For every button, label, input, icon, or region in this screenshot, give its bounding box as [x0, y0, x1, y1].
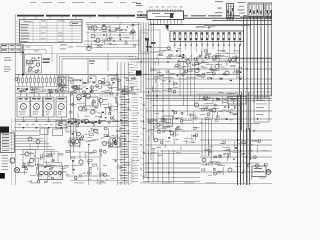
dark box bottom-left	[0, 173, 5, 179]
IC U201	[147, 9, 184, 19]
wire: band bottom y93	[15, 92, 136, 94]
wire grid bottom center	[143, 150, 200, 183]
parts list table	[17, 20, 83, 43]
label 3S021	[43, 59, 51, 63]
IF amplifier section	[84, 23, 140, 51]
wire: left bus pair	[22, 44, 24, 76]
page border (left frame)	[12, 14, 16, 185]
net label ladder	[120, 89, 145, 184]
audio section cluster	[12, 128, 70, 183]
wire: bottom-right horizontal buses	[146, 96, 272, 172]
switch block AM/FM	[1, 44, 21, 53]
title text top-left margin	[30, 1, 137, 4]
box right text panel	[254, 97, 269, 122]
tuner section box	[25, 55, 42, 74]
wire: bus y62 right	[136, 61, 272, 63]
bottom margin text	[30, 182, 216, 185]
wire: connector return line	[240, 16, 272, 18]
wire: right vertical bus	[240, 13, 272, 185]
left edge text column	[2, 155, 9, 170]
wire: second bus to right edge	[212, 19, 272, 21]
wire: tuner links	[21, 46, 52, 63]
component cluster below U201 drops	[146, 47, 181, 93]
wire: arrow drop x88	[88, 59, 95, 75]
wire: right buses y79-95	[136, 78, 272, 95]
wire: main top bus	[17, 15, 247, 17]
mid band component row	[15, 75, 136, 94]
wire: table to radio links	[18, 43, 21, 45]
wire stubs below top bus	[24, 17, 118, 19]
component cluster power	[194, 92, 237, 121]
label cluster above section	[60, 45, 103, 50]
speaker circle	[10, 158, 15, 163]
box bottom-right	[252, 166, 271, 177]
wires from left connector	[14, 136, 55, 150]
wire: vertical bus below U201	[128, 23, 154, 181]
wire: bus y69 right	[150, 68, 272, 70]
wire: bus y24.5	[150, 25, 272, 26]
wire: tuner top link	[21, 53, 56, 55]
arrow down at x167	[165, 25, 169, 29]
wire: verticals x202-212	[202, 119, 212, 156]
connector CN603	[265, 3, 272, 17]
driver transistors	[15, 127, 69, 129]
wire: verticals x157-169	[156, 69, 169, 123]
label above IC601	[195, 26, 215, 28]
wire into U201 left	[137, 12, 148, 18]
connector left edge	[0, 133, 14, 153]
chroma section cluster	[66, 92, 120, 148]
text under AM/FM	[4, 58, 12, 72]
wire: dark pair verticals	[238, 95, 250, 185]
wire: bus y74	[15, 74, 240, 76]
pads below CN602 CN603	[249, 17, 271, 19]
pads below CN601	[227, 18, 234, 20]
wire: center vline pair	[71, 95, 74, 160]
connector CN602	[248, 3, 264, 17]
pins below IC601	[168, 25, 241, 60]
IC601 striped block	[170, 31, 244, 42]
box left of IC601	[140, 30, 160, 52]
component cluster video out	[176, 48, 241, 81]
pins below U201	[149, 19, 182, 25]
wire: verticals x180-196	[180, 62, 194, 116]
wire: bottom hline right	[150, 153, 272, 184]
box bottom-right top	[228, 97, 246, 105]
component cluster bottom-right	[201, 140, 270, 180]
dark box left edge mid	[136, 71, 142, 76]
wire: center verticals	[117, 62, 129, 185]
box power section	[196, 94, 239, 130]
wire: bus y58 right	[230, 57, 272, 59]
label near U201	[136, 3, 183, 7]
wire: drop x108	[107, 54, 109, 71]
connector CN601	[227, 4, 234, 18]
transformer small box	[163, 116, 173, 127]
small box right of table	[70, 22, 82, 26]
driver transformer blocks	[17, 93, 67, 128]
component cluster sync	[148, 110, 202, 150]
wire: long hline y121	[15, 119, 137, 122]
dark box left edge	[0, 127, 9, 133]
section nested corners	[57, 54, 272, 93]
wire: U201 output to right edge	[184, 17, 273, 19]
small box on bus x170	[170, 13, 173, 18]
deflection section cluster	[66, 138, 121, 185]
wire: verticals x57-68 drop	[59, 75, 69, 93]
label CN601 text	[215, 1, 223, 13]
label CN602 text	[238, 2, 246, 14]
